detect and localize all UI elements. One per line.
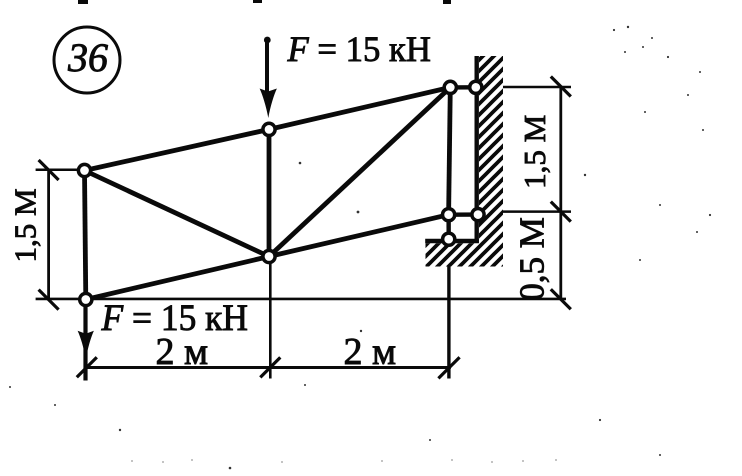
right vertical member N5-N7 <box>449 87 451 214</box>
force arrow shaft (top, at N3) <box>265 39 269 100</box>
wall face line <box>475 56 479 243</box>
bottom chord member N2-N4-N7 <box>86 215 449 300</box>
force arrowhead (top) <box>260 89 277 119</box>
roller link N7-N9 <box>446 215 451 240</box>
svg-text:0,5 М: 0,5 М <box>513 217 552 301</box>
middle vertical member N3-N4 <box>267 129 272 256</box>
force arrow top dot <box>264 37 271 44</box>
force arrowhead (bottom) <box>78 331 94 359</box>
node N7 (right lower) <box>443 209 455 221</box>
bottom dim tick left <box>77 357 97 377</box>
bottom dimension extension (right, below roller) <box>447 266 450 379</box>
node N4 (bottom middle) <box>263 250 275 262</box>
right dimension extension (middle) <box>503 210 571 213</box>
right dimension line <box>559 87 562 300</box>
bottom dimension extension (middle, below N4) <box>269 262 272 379</box>
svg-text:F = 15 кН: F = 15 кН <box>287 29 431 69</box>
force arrow shaft (bottom, at N2) <box>83 300 87 381</box>
top edge crop fragment 2 <box>253 0 262 3</box>
right dim tick bottom <box>551 289 571 309</box>
top chord member N1-N3-N5 <box>85 87 451 170</box>
roller ground line <box>425 239 479 244</box>
right dim tick top <box>551 77 571 97</box>
right dim tick middle <box>551 202 571 222</box>
node N3 (top middle) <box>263 123 275 135</box>
left dimension line <box>47 170 50 300</box>
top edge crop fragment 3 <box>443 0 451 4</box>
top edge crop fragment 1 <box>78 0 88 4</box>
svg-text:36: 36 <box>67 35 108 80</box>
node N8 (wall pin lower) <box>472 209 484 221</box>
svg-text:2 м: 2 м <box>344 331 397 373</box>
lower support link N7-N8 <box>449 212 478 216</box>
diagonal member N4-N5 <box>269 87 450 256</box>
left dimension extension line (top) <box>36 169 80 172</box>
node N1 (left top) <box>78 164 90 176</box>
node N2 (left bottom) <box>80 293 92 305</box>
bottom dim tick middle <box>260 357 280 377</box>
node N9 (roller) <box>443 233 455 245</box>
faint dust row near bottom <box>131 459 557 463</box>
svg-text:F = 15 кН: F = 15 кН <box>101 298 248 339</box>
bottom dimension line <box>85 366 451 369</box>
problem number badge circle 36 <box>54 27 120 93</box>
node N6 (wall pin top) <box>470 81 482 93</box>
bottom dim tick right <box>438 357 459 378</box>
left dim tick top <box>39 160 59 180</box>
diagonal member N1-N4 <box>85 171 270 257</box>
svg-text:1,5 М: 1,5 М <box>517 115 552 189</box>
top support link N5-N6 <box>450 85 476 89</box>
svg-text:1,5 М: 1,5 М <box>8 188 43 262</box>
left dim tick bottom <box>39 290 59 310</box>
right dimension extension (top, from wall) <box>503 86 571 89</box>
wall hatch region (L-shape: wall + ground) <box>426 56 504 267</box>
node N5 (top right) <box>444 81 456 93</box>
left vertical member N1-N2 <box>85 171 86 300</box>
thin baseline through lower-left node to right dimension line <box>36 298 566 301</box>
